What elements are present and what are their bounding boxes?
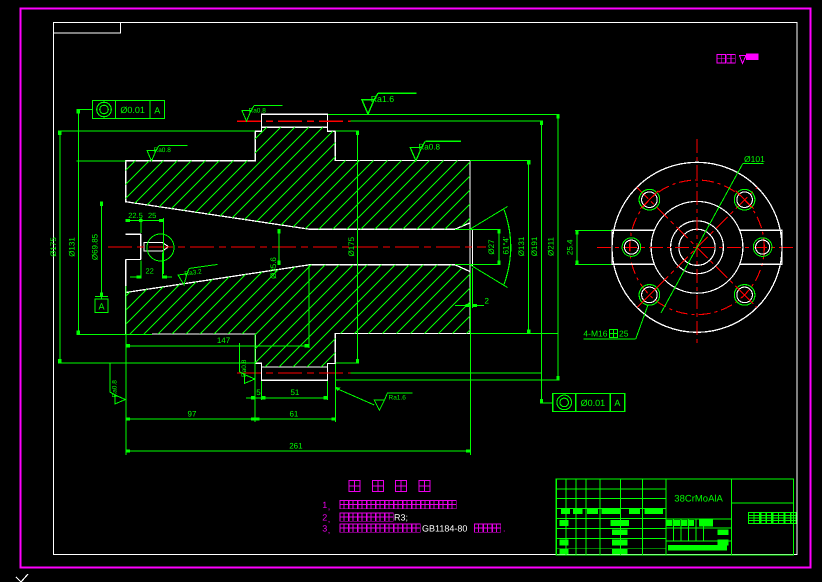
ext gear right shoulder vertical	[335, 364, 337, 422]
ext tooth right vertical	[327, 381, 329, 400]
ext tip top	[328, 113, 558, 115]
roughness Ra0.8 right cylinder	[410, 141, 461, 160]
ext pitch bottom green	[350, 372, 541, 374]
end view circle Ø69.85	[651, 201, 743, 293]
dimension Ø35.6 bore	[269, 229, 281, 279]
ext root bottom left	[58, 362, 255, 364]
ext bore bottom	[455, 264, 499, 266]
svg-text:Ø131: Ø131	[68, 237, 77, 257]
svg-text:Ø69.85: Ø69.85	[91, 233, 100, 260]
surface note 其余 top right	[717, 54, 759, 64]
ext tooth left vertical	[260, 381, 262, 400]
svg-text:Ø27: Ø27	[487, 239, 496, 255]
tech req line 2	[322, 513, 408, 525]
roughness Ra0.8 hub top	[147, 146, 188, 162]
left wing flat	[612, 230, 655, 264]
svg-text:Ø131: Ø131	[517, 236, 526, 256]
part name 主轴齿轮	[749, 513, 797, 524]
leader Ø101 bolt circle	[661, 154, 765, 313]
left face lower segment	[125, 259, 127, 334]
gear root line top	[262, 126, 328, 128]
svg-text:3: 3	[322, 524, 327, 534]
dimensions 22.5 and 25 thread depth	[125, 211, 163, 274]
ext right cyl bottom	[470, 333, 559, 335]
M16 hole 2	[734, 189, 755, 210]
dimension 22 thread length	[130, 253, 172, 279]
feature control frame concentricity Ø0.01 A (top)	[93, 101, 165, 119]
ext taper end vertical	[308, 265, 310, 348]
ext gear left shoulder vertical	[254, 334, 256, 422]
datum feature symbol A	[95, 297, 108, 313]
svg-text:61°4': 61°4'	[502, 236, 511, 255]
main axis centerline	[108, 246, 486, 248]
ext end face vertical	[469, 273, 471, 455]
title block text blocks	[559, 509, 728, 554]
svg-text:261: 261	[289, 441, 303, 450]
tech req line 1	[322, 500, 456, 512]
dimension 25.4 wing width	[566, 230, 579, 265]
M16 hole 1	[639, 189, 660, 210]
svg-text:2: 2	[322, 513, 327, 523]
svg-text:Ra1.6: Ra1.6	[389, 395, 407, 402]
svg-text:Ø211: Ø211	[547, 236, 556, 256]
svg-text:51: 51	[290, 388, 299, 397]
svg-text:61: 61	[289, 410, 298, 419]
angle dimension 61°4'	[470, 207, 511, 288]
dimension 2 end chamfer	[455, 297, 490, 308]
svg-text:Ø0.01: Ø0.01	[581, 398, 606, 408]
leader 4-M16 depth 25	[583, 305, 648, 339]
svg-text:25.4: 25.4	[566, 239, 575, 255]
end view red horizontal centerline	[597, 246, 795, 248]
roughness Ra1.6 gear tip top	[362, 93, 417, 114]
roughness Ra0.8 gear flank	[242, 106, 283, 122]
feature control frame concentricity Ø0.01 A (bottom)	[553, 393, 625, 411]
svg-text:R3;: R3;	[394, 513, 408, 523]
right wing hole	[753, 238, 772, 257]
FCF1 leader	[78, 109, 92, 111]
end view red diagonal 2	[637, 187, 757, 307]
thread runout circle	[147, 234, 174, 261]
dimensions 5 and 51 gear teeth	[246, 388, 328, 399]
M16 hole 3	[639, 285, 660, 306]
roughness Ra3.2 taper surface	[177, 264, 219, 285]
svg-text:2: 2	[485, 297, 490, 306]
ext tip bottom	[336, 379, 558, 381]
svg-text:22: 22	[146, 267, 154, 276]
svg-text:5: 5	[256, 388, 261, 397]
ext root top left	[58, 130, 255, 132]
svg-text:Ra0.8: Ra0.8	[418, 143, 440, 152]
ext bore top	[455, 228, 499, 230]
svg-text:1: 1	[322, 500, 327, 510]
svg-text:Ra0.8: Ra0.8	[249, 107, 267, 114]
end view red diagonal 1	[637, 187, 757, 307]
svg-text:4-M16: 4-M16	[583, 329, 607, 339]
svg-text:A: A	[98, 302, 104, 312]
svg-text:,: ,	[328, 525, 331, 535]
svg-text:147: 147	[217, 336, 231, 345]
svg-text:97: 97	[188, 410, 197, 419]
title block grid	[556, 479, 793, 555]
svg-text:Ø35.6: Ø35.6	[269, 257, 278, 279]
bottom-left corner mark	[16, 574, 28, 582]
end face across bore	[469, 223, 471, 272]
right wing flat	[740, 230, 783, 264]
svg-text:25: 25	[148, 211, 156, 220]
svg-text:Ø175: Ø175	[347, 236, 356, 256]
FCF2 leader	[541, 402, 552, 404]
part outline upper half	[126, 114, 470, 229]
bolt circle red	[630, 180, 765, 315]
svg-text:Ø0.01: Ø0.01	[120, 105, 145, 115]
svg-text:Ø175: Ø175	[49, 237, 58, 257]
svg-text:Ø101: Ø101	[744, 154, 765, 164]
gear pitch line top	[237, 120, 350, 122]
ext root bottom right	[336, 362, 358, 364]
dimension Ø191 pitch circle	[530, 121, 543, 404]
dimension Ø131 left hub	[68, 109, 80, 335]
dimensions 97 and 61	[126, 410, 336, 421]
dimension 261 overall length	[126, 441, 471, 452]
svg-text:GB1184-80: GB1184-80	[422, 524, 467, 534]
svg-text:Ra0.8: Ra0.8	[154, 147, 172, 154]
gear root line bottom	[261, 366, 327, 368]
svg-text:Ø191: Ø191	[530, 236, 539, 256]
ext right cyl top	[470, 160, 529, 162]
svg-text:,: ,	[328, 502, 331, 512]
roughness Ra0.8 left face (rotated)	[110, 364, 126, 405]
dimension Ø175 (gear root) left	[49, 131, 61, 364]
dimension Ø69.85 taper opening	[91, 201, 104, 297]
dimension Ø27 end bore	[487, 229, 501, 265]
svg-text:A: A	[154, 105, 160, 115]
M16 hole 4	[734, 285, 755, 306]
ext hub bottom	[76, 334, 152, 336]
svg-text:38CrMoAlA: 38CrMoAlA	[674, 494, 723, 505]
dimension Ø131 right cylinder	[517, 160, 530, 334]
title 技术要求	[349, 481, 430, 492]
ext hub top	[76, 160, 125, 162]
gear pitch line bottom	[237, 372, 350, 374]
svg-text:,: ,	[328, 514, 331, 524]
counterbore bottom line	[126, 258, 141, 260]
svg-text:A: A	[614, 398, 620, 408]
roughness Ra1.6 with leader (gear tip bottom)	[335, 387, 412, 410]
ext wing bottom	[575, 263, 612, 265]
ext pitch top green	[350, 120, 541, 122]
end view outer circle Ø131	[612, 162, 782, 332]
thread hole outline	[144, 243, 169, 252]
dimension Ø175 gear root right	[347, 131, 359, 364]
end face inner edge	[472, 229, 474, 266]
ext left face vertical	[125, 286, 127, 455]
counterbore top line	[126, 233, 141, 235]
part outline lower half	[126, 265, 470, 381]
counterbore face	[140, 234, 142, 259]
dimension 147 taper depth	[126, 336, 309, 347]
svg-text:Ra0.8: Ra0.8	[112, 380, 119, 398]
svg-text:.: .	[503, 524, 506, 534]
tech req line 3	[322, 524, 505, 536]
ext end chamfer vertical	[472, 268, 474, 308]
end view red vertical centerline	[696, 139, 698, 347]
roughness Ra0.8 gear shoulder (rotated)	[239, 343, 255, 384]
end view countersink circle	[671, 221, 724, 274]
left wing hole	[622, 238, 641, 257]
dimension Ø211 gear tip	[547, 114, 560, 381]
svg-text:Ra1.6: Ra1.6	[371, 95, 395, 104]
svg-text:25: 25	[619, 329, 629, 339]
frame top-left tab	[54, 23, 121, 34]
end view bore circle Ø27	[679, 229, 715, 265]
ext wing top	[575, 229, 612, 231]
ext root top right	[335, 130, 358, 132]
svg-text:Ra0.8: Ra0.8	[241, 359, 248, 377]
